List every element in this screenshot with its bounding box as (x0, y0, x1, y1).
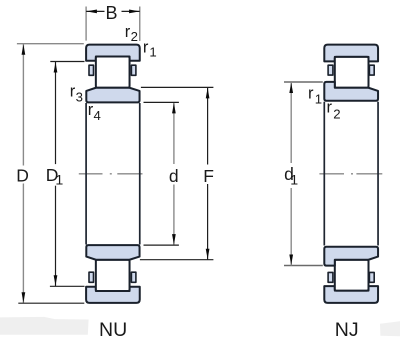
svg-text:1: 1 (149, 44, 156, 59)
svg-text:B: B (106, 3, 118, 23)
svg-text:d: d (169, 166, 179, 186)
svg-text:NU: NU (99, 319, 127, 341)
svg-text:NJ: NJ (335, 319, 359, 341)
svg-text:1: 1 (290, 172, 298, 188)
svg-text:F: F (203, 166, 214, 186)
svg-text:4: 4 (94, 108, 101, 123)
svg-text:3: 3 (76, 89, 83, 104)
svg-text:1: 1 (55, 173, 63, 189)
svg-text:2: 2 (131, 29, 138, 44)
svg-text:r: r (327, 98, 333, 116)
svg-text:r: r (143, 39, 149, 57)
svg-text:D: D (16, 165, 29, 185)
svg-text:1: 1 (315, 92, 322, 107)
svg-text:2: 2 (333, 106, 340, 121)
svg-text:r: r (308, 84, 314, 102)
